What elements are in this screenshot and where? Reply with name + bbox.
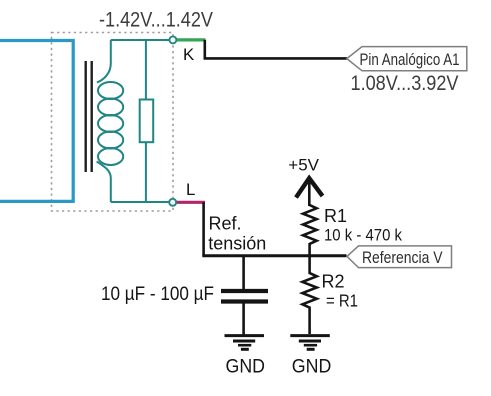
resistor R secondary (teal rectangle) — [140, 100, 154, 143]
blue device box — [0, 41, 73, 202]
wire magenta (L) — [173, 201, 205, 204]
wire reference rail — [202, 254, 346, 257]
svg-text:tensión: tensión — [208, 234, 266, 254]
svg-text:10 µF - 100 µF: 10 µF - 100 µF — [101, 284, 214, 305]
wire teal bottom — [111, 201, 170, 203]
ground GND (R2) — [290, 336, 330, 350]
svg-text:R2: R2 — [322, 272, 345, 292]
wire resistor branch — [145, 40, 147, 202]
dashed enclosure — [52, 33, 174, 212]
svg-text:L: L — [186, 180, 195, 199]
wire from L down — [202, 202, 205, 255]
svg-text:Pin Analógico A1: Pin Analógico A1 — [360, 51, 460, 69]
svg-text:10 k - 470 k: 10 k - 470 k — [324, 225, 402, 244]
resistor R2 — [302, 256, 316, 334]
svg-text:R1: R1 — [324, 206, 347, 226]
svg-text:Referencia V: Referencia V — [362, 249, 443, 267]
transformer winding (secondary coil) — [97, 40, 124, 202]
svg-text:1.08V...3.92V: 1.08V...3.92V — [351, 71, 460, 95]
flag Pin Analógico A1 — [347, 47, 467, 71]
power arrow +5V — [296, 178, 323, 206]
svg-text:+5V: +5V — [288, 156, 319, 175]
svg-text:Ref.: Ref. — [209, 214, 242, 234]
flag Referencia V — [347, 246, 452, 268]
svg-text:GND: GND — [226, 357, 266, 378]
ground GND (capacitor) — [225, 336, 265, 350]
svg-text:-1.42V...1.42V: -1.42V...1.42V — [99, 8, 214, 32]
wire green (K) — [173, 38, 206, 41]
node L — [169, 199, 176, 206]
node K — [169, 36, 176, 43]
wire to analog pin flag — [205, 40, 347, 59]
svg-text:GND: GND — [292, 357, 332, 378]
resistor R1 — [303, 205, 317, 256]
svg-text:K: K — [183, 45, 194, 64]
capacitor C1 — [221, 256, 268, 335]
wire teal top — [111, 39, 170, 41]
transformer core — [86, 61, 92, 172]
svg-text:= R1: = R1 — [326, 290, 358, 310]
